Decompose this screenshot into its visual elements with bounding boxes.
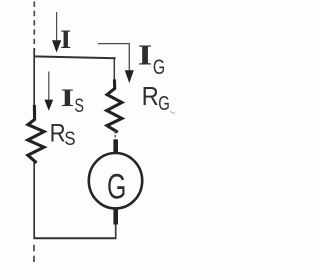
svg-text:I: I (61, 85, 75, 112)
arrow: current IS (44, 72, 53, 111)
svg-text:I: I (138, 41, 153, 72)
label IG (138, 41, 165, 80)
wire: left vertical, top solid segment (33, 49, 35, 108)
arrow: current IG (elbow) (98, 44, 134, 84)
wire: top horizontal (33, 56, 115, 58)
label RG (142, 81, 175, 115)
label IS (61, 85, 84, 117)
svg-text:S: S (64, 128, 75, 150)
svg-text:G: G (158, 92, 170, 115)
wire: left vertical, bottom solid segment (33, 161, 35, 239)
wire: lead from RG to galvanometer (114, 131, 116, 141)
svg-text:S: S (74, 95, 84, 117)
svg-text:R: R (50, 120, 66, 148)
resistor RS (zigzag) (28, 107, 44, 162)
svg-text:R: R (142, 81, 159, 111)
wire: bottom horizontal (34, 237, 117, 239)
wire: lead from galvanometer bottom to bottom wire (115, 224, 117, 239)
terminal: galvanometer bottom (113, 208, 118, 225)
label RS (50, 120, 76, 151)
svg-text:G: G (153, 55, 165, 79)
galvanometer G (circle) (89, 153, 142, 208)
resistor RG (zigzag) (107, 81, 122, 131)
wire: right branch upper lead (113, 57, 115, 82)
svg-text:I: I (60, 25, 71, 54)
wire: bottom dashed lead (left, exiting) (33, 245, 35, 264)
svg-text:G: G (107, 169, 126, 207)
arrow: current I (52, 12, 61, 53)
terminal: galvanometer top (113, 140, 118, 154)
wire: top dashed lead (left, entering current I) (33, 2, 35, 51)
